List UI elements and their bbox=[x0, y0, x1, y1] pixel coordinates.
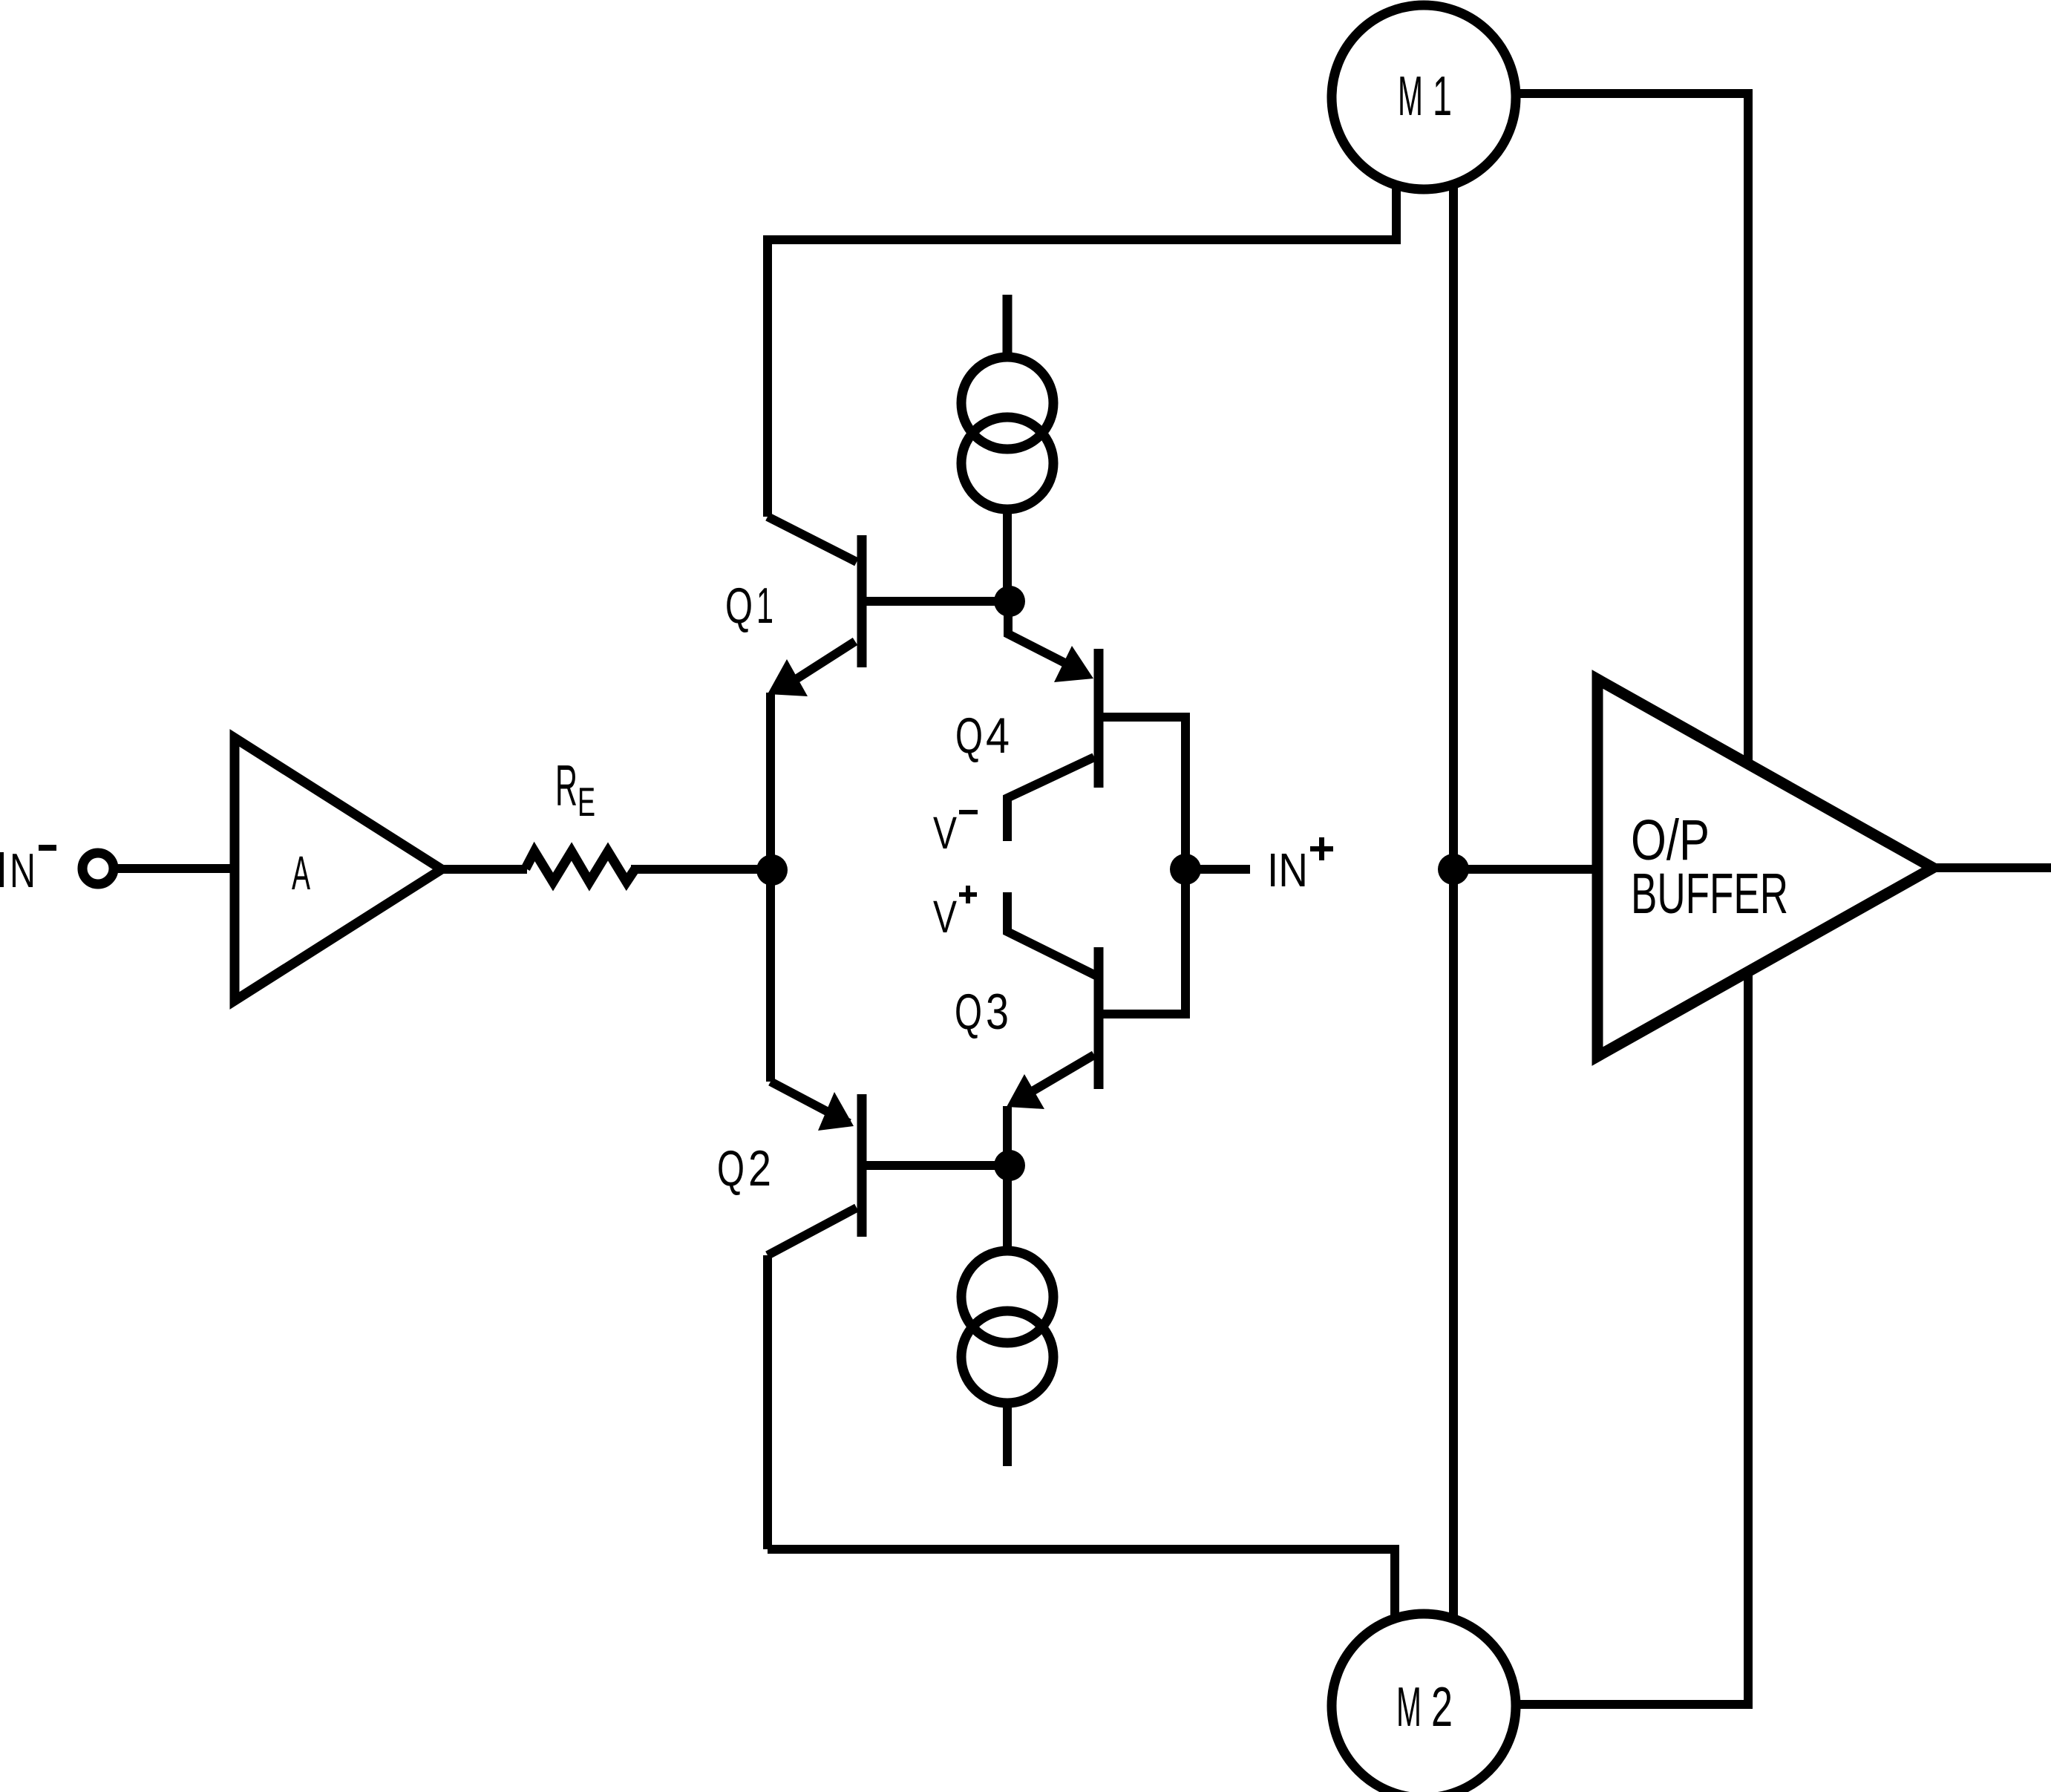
label Q1 bbox=[725, 578, 773, 634]
wire Q2 collector to bottom rail bbox=[763, 1255, 772, 1549]
transistor Q3 bbox=[1007, 869, 1185, 1109]
svg-text:1: 1 bbox=[1433, 65, 1452, 127]
svg-text:E: E bbox=[578, 779, 595, 825]
label Q2 bbox=[717, 1140, 771, 1197]
svg-text:Q: Q bbox=[717, 1140, 745, 1197]
label V+ bbox=[933, 886, 977, 942]
wire M1 bottom to M2 top (buffer input vertical) bbox=[1449, 187, 1458, 1618]
svg-text:Q: Q bbox=[955, 984, 982, 1040]
wire RE to node N1 bbox=[631, 865, 773, 874]
svg-text:R: R bbox=[555, 753, 578, 818]
svg-text:Q: Q bbox=[725, 578, 753, 634]
wire M1 right to M2 right (outer loop) bbox=[1516, 94, 1748, 1704]
current source I1 bbox=[961, 295, 1053, 601]
svg-text:3: 3 bbox=[986, 984, 1009, 1040]
multiplier M2 circle bbox=[1332, 1614, 1516, 1792]
svg-text:IN: IN bbox=[1267, 843, 1308, 897]
svg-text:M: M bbox=[1398, 65, 1423, 127]
current source I2 bbox=[961, 1251, 1053, 1466]
transistor Q1 bbox=[768, 517, 1010, 696]
node B junction dot (Q2 base / Q3 emitter / I2) bbox=[994, 1150, 1025, 1181]
svg-text:2: 2 bbox=[748, 1140, 771, 1197]
wire node B to current source I2 bbox=[1003, 1165, 1012, 1251]
wire IN- terminal to amplifier A bbox=[118, 864, 239, 873]
multiplier M1 circle bbox=[1332, 5, 1516, 189]
node IN- label bbox=[0, 843, 56, 897]
label Q3 bbox=[955, 984, 1009, 1040]
O/P buffer triangle bbox=[1597, 679, 1933, 1056]
wire Q3 emitter corner through node B bbox=[1003, 1106, 1012, 1165]
input terminal circle bbox=[82, 853, 114, 884]
svg-text:Q: Q bbox=[955, 707, 983, 764]
svg-text:M: M bbox=[1396, 1675, 1422, 1738]
transistor Q4 bbox=[1007, 601, 1185, 869]
node buffer input junction dot bbox=[1438, 854, 1469, 885]
node N1 junction dot bbox=[756, 854, 788, 886]
svg-text:V: V bbox=[933, 892, 957, 942]
output wire bbox=[1933, 863, 2051, 872]
bottom rail wire to M2 bbox=[768, 1549, 1395, 1618]
wire node N1 vertical (Q1 emitter to Q2 emitter) bbox=[766, 693, 775, 1082]
op-amp A bbox=[235, 738, 442, 1001]
svg-text:N: N bbox=[10, 843, 36, 897]
wire A to RE bbox=[442, 865, 527, 874]
node A junction dot (Q1 base / I1 / Q4 emitter) bbox=[994, 586, 1025, 617]
node IN+ junction dot and label bbox=[1170, 854, 1201, 885]
label V- bbox=[933, 808, 978, 858]
svg-text:BUFFER: BUFFER bbox=[1631, 862, 1788, 926]
svg-text:4: 4 bbox=[986, 707, 1010, 764]
transistor Q2 bbox=[768, 1082, 1010, 1255]
label RE bbox=[555, 753, 595, 825]
resistor RE bbox=[526, 851, 635, 882]
wire node to O/P buffer bbox=[1453, 865, 1597, 874]
top rail wire to M1 bbox=[768, 185, 1396, 240]
svg-text:1: 1 bbox=[756, 578, 773, 634]
svg-text:A: A bbox=[292, 846, 310, 900]
svg-text:V: V bbox=[933, 808, 957, 858]
svg-text:2: 2 bbox=[1431, 1675, 1453, 1738]
wire Q1 collector to top rail bbox=[763, 235, 772, 517]
label Q4 bbox=[955, 707, 1010, 764]
